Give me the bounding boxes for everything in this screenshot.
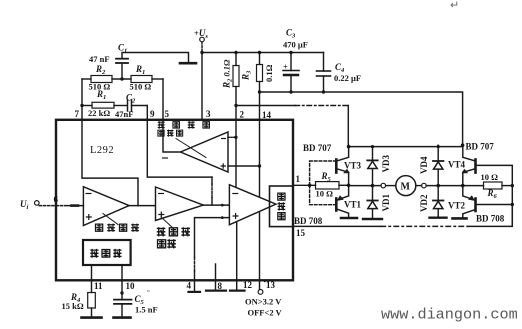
node output left (VT3/VT1 emitters) <box>347 184 351 188</box>
svg-text:www.diangon.com: www.diangon.com <box>381 306 518 324</box>
wire pin2 inner <box>235 120 237 187</box>
diode VD2 <box>433 186 443 218</box>
capacitor C4 <box>317 53 331 93</box>
wire pin7 inner <box>82 120 138 206</box>
svg-text:↵: ↵ <box>450 0 459 12</box>
node VT2 base/pin15 riser <box>511 203 514 206</box>
node pin7 net <box>80 104 83 107</box>
ground VD2 <box>430 216 447 218</box>
CJK label: oscillator (zhendangqi) <box>90 249 121 258</box>
svg-text:VD1: VD1 <box>381 194 391 212</box>
node pin2 sense <box>234 104 237 107</box>
resistor R2 0.1 <box>233 53 239 120</box>
terminal Ui <box>35 201 40 206</box>
svg-text:M: M <box>401 182 411 193</box>
op-amp comparator U1c <box>229 185 276 225</box>
svg-text:14: 14 <box>262 110 272 120</box>
svg-text:ON>3.2 V: ON>3.2 V <box>245 297 282 307</box>
driver block (comparator box) <box>270 186 294 227</box>
svg-text:10: 10 <box>126 281 136 291</box>
svg-text:VT4: VT4 <box>448 160 466 170</box>
node VD3/rail <box>371 145 374 148</box>
wire pin9 upper <box>146 106 148 120</box>
wire VT4 base <box>476 165 512 185</box>
svg-text:22 kΩ: 22 kΩ <box>88 108 110 118</box>
node C4 bottom <box>322 90 325 93</box>
capacitor C5 <box>114 299 132 301</box>
wire sense dash-dot <box>236 105 295 107</box>
ground VT2 <box>453 217 467 220</box>
node comparator plus wire <box>221 216 224 219</box>
svg-text:0.22 μF: 0.22 μF <box>334 73 361 83</box>
motor M1 <box>396 176 416 196</box>
svg-text:BD 708: BD 708 <box>294 216 323 226</box>
svg-text:2: 2 <box>240 110 245 120</box>
op-amp error amp U1b <box>156 187 204 221</box>
node C3 bottom <box>289 90 292 93</box>
node pin14 sense <box>258 90 261 93</box>
wire + input <box>228 165 260 167</box>
ground C5 <box>114 316 131 319</box>
terminal motor right <box>422 183 427 188</box>
node pin10/C5 <box>120 291 123 294</box>
resistor R1 22k <box>82 102 127 108</box>
leader line (label) <box>161 217 173 228</box>
CJK label: level shift (dianping bianhuan) <box>95 224 138 232</box>
node C1/R2/R1 junction <box>120 77 123 80</box>
svg-text:1: 1 <box>296 174 301 184</box>
resistor R1 510 <box>131 76 163 83</box>
node current-amp plus <box>258 164 261 167</box>
svg-text:5: 5 <box>165 109 170 119</box>
svg-text:7: 7 <box>75 109 80 119</box>
svg-text:47 nF: 47 nF <box>89 54 110 64</box>
node VT3 collector/rail <box>347 145 351 149</box>
svg-text:VD3: VD3 <box>381 155 391 173</box>
svg-text:9: 9 <box>150 109 155 119</box>
diode VD1 <box>367 186 377 219</box>
wire - input dotted <box>228 136 236 138</box>
wire pin12 <box>236 222 238 291</box>
resistor R4 <box>88 293 96 309</box>
svg-text:4: 4 <box>187 281 192 291</box>
svg-text:15 kΩ: 15 kΩ <box>62 301 84 311</box>
svg-text:+: + <box>283 62 288 72</box>
node comparator minus wire <box>221 204 224 207</box>
svg-text:BD 707: BD 707 <box>466 142 495 152</box>
node rail/R3-0.1 <box>258 51 261 54</box>
terminal +Us <box>200 37 205 42</box>
oscillator box <box>83 240 131 265</box>
wire pin14/pin13 vertical <box>259 120 261 290</box>
svg-text:VD2: VD2 <box>419 194 429 212</box>
supply rail <box>202 52 324 54</box>
wire amp1 output <box>129 205 155 207</box>
leader line (label) <box>176 139 206 158</box>
svg-text:BD 708: BD 708 <box>476 214 505 224</box>
wire amp2 output <box>203 204 229 206</box>
op-amp current sense (points left) <box>181 132 229 172</box>
wire pin5 upper <box>162 79 164 120</box>
node VT4 collector/rail <box>461 143 465 147</box>
svg-text:3: 3 <box>206 109 211 119</box>
wire pin10 <box>121 265 123 299</box>
op-amp level shift U1a <box>83 187 129 226</box>
capacitor C2 <box>128 100 148 111</box>
resistor R6 <box>484 182 503 189</box>
ground pin4 <box>189 291 201 293</box>
svg-text:11: 11 <box>94 281 103 291</box>
opamp +/- signs <box>86 139 239 221</box>
capacitor C1 <box>116 53 189 80</box>
svg-text:VT3: VT3 <box>344 161 362 171</box>
svg-text:1.5 nF: 1.5 nF <box>135 305 158 315</box>
svg-text:0.1Ω: 0.1Ω <box>264 64 274 82</box>
svg-text:VT2: VT2 <box>448 201 466 211</box>
wire pin8 stub <box>215 264 217 290</box>
capacitor C3 electrolytic <box>283 53 299 93</box>
node VD3/VD1/output <box>371 184 375 188</box>
node VD4/VD2/output <box>436 184 440 188</box>
ground VT1 <box>341 217 357 220</box>
transistor VT4 (BD707 NPN) <box>462 145 475 185</box>
diode VD3 <box>367 147 377 186</box>
ground pin8 <box>206 290 226 292</box>
leader line (label) <box>103 214 118 225</box>
wire output left <box>349 185 381 187</box>
svg-text:L292: L292 <box>90 145 114 156</box>
wire pin15 <box>293 225 381 227</box>
CJK label: comparator vertical (bijiaoqi) <box>278 193 286 220</box>
transistor VT2 (BD708 PNP) <box>463 186 476 218</box>
svg-text:15: 15 <box>296 228 306 238</box>
node VD4/rail <box>437 145 440 148</box>
CJK label: error amp (wucha fangda qi) <box>157 227 190 248</box>
wire node7 vertical <box>81 79 83 120</box>
terminal pin13 <box>258 290 263 295</box>
CJK label: current measure amp (dianliu celiang fangdaqi) <box>158 121 210 136</box>
wire pin5 to amp output <box>163 120 181 152</box>
node pin1/R5/base drive <box>308 184 312 188</box>
svg-text:10 Ω: 10 Ω <box>481 172 499 182</box>
ground VD1 <box>363 218 382 220</box>
pin number labels <box>54 109 306 291</box>
node +Us rail at pin3 <box>200 51 203 54</box>
wire pin11 <box>91 265 93 293</box>
node rail/C3 <box>289 51 292 54</box>
svg-text:47nF: 47nF <box>115 109 133 119</box>
L292 IC box <box>56 120 293 280</box>
svg-text:510 Ω: 510 Ω <box>130 82 152 92</box>
resistor R3 0.1 <box>257 53 263 120</box>
node current-amp minus <box>234 136 237 139</box>
svg-text:BD 707: BD 707 <box>303 143 332 153</box>
svg-text:VD4: VD4 <box>419 156 429 174</box>
svg-text:470 μF: 470 μF <box>283 40 308 50</box>
collector rail <box>349 146 463 148</box>
wire pin1 out <box>293 184 316 186</box>
wire pin9 inner feedback <box>147 120 212 177</box>
resistor R2 510 <box>82 76 131 83</box>
svg-text:8: 8 <box>218 281 223 291</box>
ground (near C1 top wire) <box>180 62 196 65</box>
transistor VT1 (BD708 PNP) <box>336 185 348 217</box>
svg-text:12: 12 <box>243 280 253 290</box>
wire base drive dashed VT3 <box>310 161 335 185</box>
node output right (VT4/VT2 emitters) <box>461 184 465 188</box>
node rail/R2-0.1 <box>234 51 237 54</box>
svg-text:¨: ¨ <box>147 288 150 298</box>
wire supply feed to output stage <box>260 92 463 145</box>
ground R4 <box>82 316 102 319</box>
wire + input from pin4 <box>195 218 230 258</box>
resistor R5 <box>316 182 340 189</box>
wire base drive dashed VT1 <box>310 185 335 204</box>
wire VT2 base <box>476 186 512 227</box>
svg-text:VT1: VT1 <box>344 200 362 210</box>
terminal motor left <box>381 183 386 188</box>
svg-text:10 Ω: 10 Ω <box>316 189 334 199</box>
svg-text:6: 6 <box>54 195 59 205</box>
svg-text:13: 13 <box>266 280 276 290</box>
node R6/pin15 riser <box>511 184 514 187</box>
diode VD4 <box>433 145 443 185</box>
ground pin12 <box>230 290 245 292</box>
svg-text:OFF<2 V: OFF<2 V <box>248 308 283 318</box>
tick dots at pin13 <box>264 280 266 282</box>
wire pin3 <box>201 53 203 120</box>
transistor VT3 (BD707 NPN) <box>336 147 349 186</box>
